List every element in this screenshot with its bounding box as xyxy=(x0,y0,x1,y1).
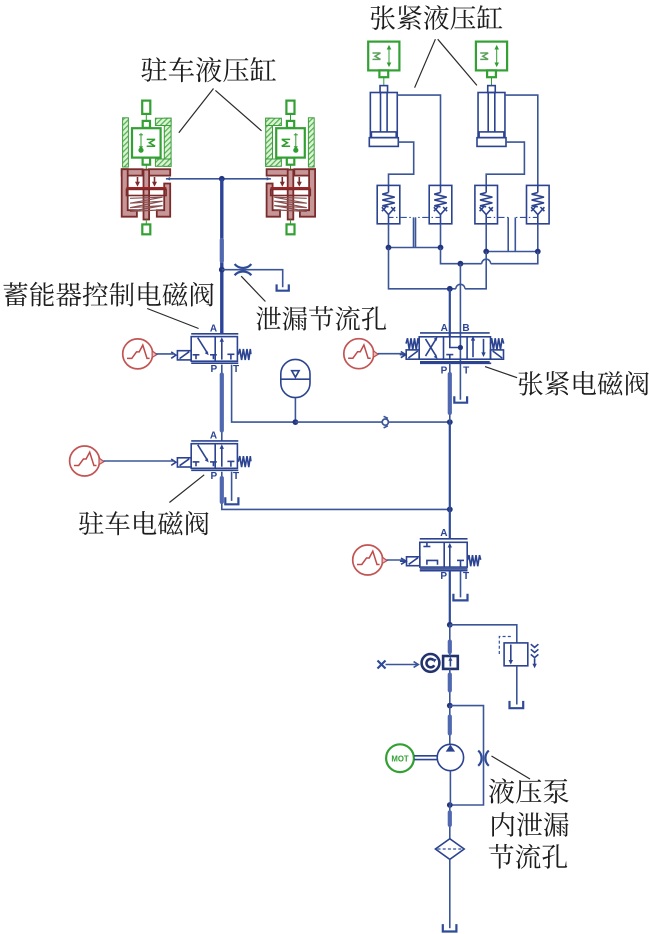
shaft: motor to pump xyxy=(414,755,437,757)
parking cylinder PC1 (left) xyxy=(122,101,171,235)
label: parking hydraulic cylinder 驻车液压缸 xyxy=(141,57,276,82)
wire: main parking line down to accumulator-valve A xyxy=(220,179,223,334)
tank symbol (parking valve T) xyxy=(225,497,238,504)
accumulator xyxy=(281,359,310,397)
wire: S1 to V1 solenoid xyxy=(156,353,175,355)
signal source S1 (ramp) xyxy=(123,339,157,369)
junction J5 xyxy=(483,249,489,255)
wire: J5-J6 link xyxy=(486,251,538,253)
wire/stubs through check block xyxy=(449,625,451,656)
label: 节流孔 xyxy=(489,844,567,869)
junction: accumulator line to pump line xyxy=(447,419,453,425)
svg-text:T: T xyxy=(233,471,239,482)
valve V2: parking solenoid valve 驻车电磁阀 (2/2) xyxy=(171,431,251,483)
svg-text:T: T xyxy=(463,365,469,376)
parking cylinder PC2 (right, mirrored) xyxy=(266,101,315,235)
wire: J1-J2 link xyxy=(389,247,441,249)
label: 液压泵 xyxy=(489,778,569,803)
wire: port A line down to V3 xyxy=(449,289,451,337)
junction: leakage orifice tap xyxy=(219,267,225,273)
signal source S2 (ramp) xyxy=(70,446,104,476)
wire: V4 P to relief junction xyxy=(449,571,451,625)
junction: parking branch on main line xyxy=(447,507,453,513)
wire: TC2 rod-side port to check valve CV4 xyxy=(505,95,538,185)
wire: pump outlet down xyxy=(449,771,451,805)
wire: PC1 to junction xyxy=(166,178,222,180)
wire: accumulator to accumulator line xyxy=(294,398,296,422)
svg-text:MOT: MOT xyxy=(391,755,409,764)
tank symbol (V4 T port) xyxy=(453,594,467,601)
junction: parking cylinder line xyxy=(219,176,225,182)
plugged port (X) xyxy=(378,661,386,669)
junction J3 (port A tap) xyxy=(447,286,453,292)
svg-text:A: A xyxy=(441,323,448,334)
wire: CV4 to junction J6 xyxy=(537,224,539,252)
pilot-operated check valve CV2 xyxy=(427,185,452,223)
svg-text:A: A xyxy=(210,431,217,442)
wire: CV2 to junction J2 xyxy=(440,224,442,248)
pointer line to left parking cylinder xyxy=(179,89,214,133)
port stub on parking line xyxy=(220,240,224,261)
label: tensioning hydraulic cylinder 张紧液压缸 xyxy=(371,5,503,30)
wire: to leakage orifice xyxy=(222,270,283,288)
wire: main line into pump xyxy=(449,706,451,745)
wire: S2 to V2 solenoid xyxy=(104,460,175,462)
wire: net A (J1 down, to J3) with hop over B line xyxy=(389,248,456,289)
tank symbol (main return) xyxy=(443,924,457,931)
junction J1 xyxy=(386,245,392,251)
label: tensioning solenoid valve 张紧电磁阀 xyxy=(518,371,648,396)
pilot cross lines (CV3/CV4 pair) xyxy=(500,216,509,218)
label: 内泄漏 xyxy=(492,812,568,837)
wire: S4 to V4 solenoid xyxy=(387,559,404,561)
leakage orifice 泄漏节流孔 xyxy=(235,264,252,268)
wire: TC1 bottom port to check valve CV1 xyxy=(389,142,414,185)
wire: CV1 to junction J1 xyxy=(388,224,390,248)
wire: V1 P to parking valve A xyxy=(221,365,223,441)
svg-text:B: B xyxy=(462,323,469,334)
wire: TC2 bottom port to check valve CV3 xyxy=(486,142,524,185)
port stub (V3 P) xyxy=(448,374,452,413)
valve V1: accumulator control solenoid valve (2/2) xyxy=(171,323,251,375)
pointer line: orifice to label xyxy=(241,276,265,301)
pointer line: V2 to label xyxy=(169,475,204,503)
one-way (check) symbol on accumulator line xyxy=(382,419,388,425)
wire: V3 P down to main line junction xyxy=(449,363,451,422)
pilot cross lines (CV1/CV2 pair) xyxy=(402,216,414,218)
wire: junction to PC2 xyxy=(222,178,271,180)
pointer line: orifice to pump label xyxy=(492,756,531,779)
svg-text:P: P xyxy=(441,366,448,377)
pump internal leakage orifice 节流孔 xyxy=(478,751,481,766)
mass block M1 (tension cylinder 1 load) xyxy=(368,42,399,86)
junction: accumulator tap xyxy=(293,419,299,425)
wire: branch to relief valve xyxy=(450,625,517,643)
tank symbol (orifice drain) xyxy=(277,284,289,290)
wire: accumulator line to main line xyxy=(295,421,449,423)
relief valve RV1 xyxy=(499,637,538,669)
wire: V4 T to tank xyxy=(460,571,462,598)
wire: V1 T port down and right (accumulator line) xyxy=(232,365,296,423)
wire: CV3 to junction J5 xyxy=(485,224,487,252)
wire: filter to tank xyxy=(449,859,451,928)
svg-text:P: P xyxy=(210,471,217,482)
pilot-operated check valve CV3 xyxy=(475,185,500,223)
pointer line to right parking cylinder xyxy=(215,90,261,130)
wire: net B (J2 down to J4, to J6) with hop over A line xyxy=(441,248,482,264)
hydraulic pump P1 xyxy=(437,744,463,770)
label: accumulator control solenoid valve 蓄能器控制电磁阀 xyxy=(3,282,213,307)
tension cylinder TC2 xyxy=(477,86,506,147)
pointer line: V3 to label xyxy=(485,367,517,378)
label: 泄漏节流孔 xyxy=(256,306,386,331)
valve V3: tensioning solenoid valve 张紧电磁阀 (4/3) xyxy=(400,323,504,377)
wire: to filter xyxy=(449,805,451,839)
wire: bypass loop (internal leakage path) xyxy=(450,706,484,805)
junction: pump bypass top xyxy=(447,703,453,709)
tank symbol (V3 T port) xyxy=(454,396,467,402)
junction J6 xyxy=(535,249,541,255)
tank symbol (relief valve) xyxy=(510,701,524,708)
wire: plug to flow sensor xyxy=(386,664,418,666)
tension cylinder TC1 xyxy=(369,86,398,147)
pilot-operated check valve CV1 xyxy=(377,185,402,223)
pointer line to tension cylinder 2 xyxy=(438,39,477,85)
junction J2 xyxy=(438,245,444,251)
filter F1 (diamond with dashed core) xyxy=(435,839,464,860)
junction J4 (port B tap) xyxy=(458,261,464,267)
port stub (V2 P line) xyxy=(220,478,224,502)
pointer line to valve V1 xyxy=(147,309,198,329)
svg-text:A: A xyxy=(210,323,217,334)
wire: V2 P down and right to pump line xyxy=(222,472,450,510)
wire: TC1 rod-side port to check valve CV2 xyxy=(397,95,440,185)
svg-text:P: P xyxy=(440,571,447,582)
flow/rotation sensor xyxy=(422,654,440,672)
svg-text:T: T xyxy=(233,364,239,375)
check valve block CB1 xyxy=(443,656,458,669)
signal source S3 (ramp) xyxy=(344,339,378,369)
motor MOT (green) xyxy=(386,744,414,772)
junction: relief valve branch xyxy=(447,622,453,628)
svg-text:T: T xyxy=(463,571,469,582)
signal source S4 (ramp) xyxy=(353,545,387,575)
port stub (V1 P line) xyxy=(220,375,224,431)
svg-text:A: A xyxy=(440,528,447,539)
wire: S3 to V3 solenoid xyxy=(378,353,404,355)
svg-text:P: P xyxy=(210,364,217,375)
mass block M2 (tension cylinder 2 load) xyxy=(476,42,507,86)
label: parking solenoid valve 驻车电磁阀 xyxy=(79,511,209,535)
junction: pump bypass bottom xyxy=(447,802,453,808)
wire: main line (V3 P junction to V4 A) xyxy=(449,422,451,539)
wire: port B line down through V3 to tank xyxy=(459,264,461,400)
pointer line to tension cylinder 1 xyxy=(415,39,436,87)
wire: relief valve to tank xyxy=(516,666,518,705)
valve V4: pump unload solenoid valve (2/2) xyxy=(400,528,481,582)
wire: V2 T to tank xyxy=(231,472,233,501)
pilot-operated check valve CV4 xyxy=(525,185,550,223)
